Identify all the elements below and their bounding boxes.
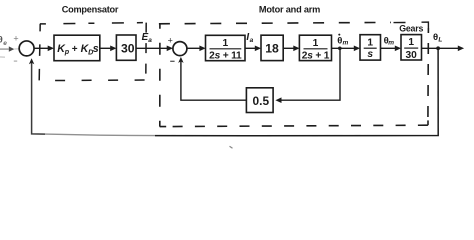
svg-text:p: p xyxy=(64,47,70,56)
svg-text:30: 30 xyxy=(121,42,135,56)
svg-text:1: 1 xyxy=(367,37,373,48)
svg-text:L: L xyxy=(438,36,442,43)
svg-text:1: 1 xyxy=(313,38,319,49)
svg-text:θ: θ xyxy=(433,32,438,43)
svg-text:s: s xyxy=(367,49,373,60)
svg-text:Motor and arm: Motor and arm xyxy=(259,5,320,15)
svg-text:+: + xyxy=(72,44,78,55)
svg-text:18: 18 xyxy=(265,42,279,56)
svg-text:m: m xyxy=(388,40,394,47)
svg-text:a: a xyxy=(250,37,254,44)
svg-text:m: m xyxy=(343,40,349,47)
svg-text:+: + xyxy=(13,33,18,43)
svg-text:+: + xyxy=(168,36,173,46)
svg-text:2s + 11: 2s + 11 xyxy=(209,51,242,62)
svg-text:Compensator: Compensator xyxy=(62,4,119,14)
svg-text:2s + 1: 2s + 1 xyxy=(302,51,330,62)
svg-text:s: s xyxy=(93,43,99,55)
svg-text:1: 1 xyxy=(222,38,228,49)
svg-text:0.5: 0.5 xyxy=(253,94,270,108)
svg-text:a: a xyxy=(148,37,152,44)
svg-text:30: 30 xyxy=(406,50,418,61)
svg-text:e: e xyxy=(3,40,7,47)
svg-text:1: 1 xyxy=(408,37,414,48)
svg-text:Gears: Gears xyxy=(399,23,423,33)
